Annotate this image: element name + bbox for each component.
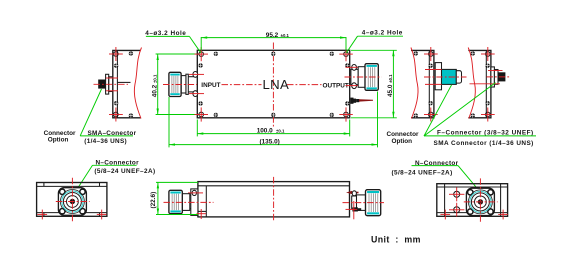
box outline	[198, 182, 350, 217]
label: SMA-Conector (1/4-36 UNS)	[80, 130, 136, 145]
leader from F-connector	[424, 85, 452, 136]
svg-text:100.0: 100.0	[257, 128, 273, 135]
label: 4-dia3.2 Hole (right)	[346, 30, 403, 53]
N-connector input (top view)	[163, 72, 204, 97]
corner hole TR	[339, 47, 353, 61]
(135.0) dimension	[169, 92, 378, 148]
end plate outline	[113, 50, 141, 117]
45.0 dimension	[351, 50, 397, 118]
screw heads on box	[198, 52, 349, 118]
break line	[468, 48, 475, 119]
corner hole TL	[195, 47, 209, 61]
leader to SMA label	[80, 89, 101, 136]
svg-text:(1/4–36 UNS): (1/4–36 UNS)	[84, 138, 127, 145]
box outline	[197, 50, 349, 118]
svg-text:±0.1: ±0.1	[281, 33, 290, 38]
label: N-Connector right	[392, 160, 459, 176]
corner hole bottom	[424, 108, 438, 122]
label: 4-dia3.2 Hole (left)	[145, 30, 201, 53]
svg-text:45.0 ±0.1: 45.0 ±0.1	[387, 74, 394, 97]
N connector circles	[60, 190, 84, 214]
svg-text:4–ø3.2 Hole: 4–ø3.2 Hole	[362, 30, 403, 37]
flange bolts	[60, 189, 86, 214]
svg-text:(22.6): (22.6)	[150, 192, 157, 209]
N flange square	[58, 188, 86, 216]
F-connector (end view)	[424, 63, 467, 90]
SMA pin output (top view)	[350, 98, 373, 104]
corner hole marks	[37, 210, 106, 220]
label: Connector Option (left)	[44, 130, 76, 144]
side holes	[449, 187, 464, 216]
SMA connector (side, left plate)	[94, 74, 129, 94]
svg-text:INPUT: INPUT	[201, 82, 220, 89]
break line	[134, 48, 141, 119]
end plate outline	[468, 50, 491, 117]
svg-text:Option: Option	[392, 138, 413, 145]
corner hole top	[424, 47, 438, 61]
svg-text:Unit : mm: Unit : mm	[371, 235, 421, 245]
SMA connector (end view)	[470, 67, 510, 87]
end plate outline	[411, 50, 434, 117]
label: N-Connector left	[93, 160, 156, 175]
svg-text:±0.1: ±0.1	[276, 129, 285, 134]
N flange square	[466, 188, 494, 215]
label: F-Connector (3/8-32 UNEF)	[424, 130, 536, 137]
svg-text:Option: Option	[48, 137, 69, 144]
leader from SMA connector	[424, 83, 496, 136]
screw heads	[471, 51, 490, 118]
horizontal centerline segments	[222, 84, 322, 86]
corner hole bottom	[109, 108, 123, 122]
vertical centerline	[272, 43, 274, 127]
svg-text:95.2: 95.2	[266, 32, 279, 39]
svg-text:SMA Connector (1/4–36 UNS): SMA Connector (1/4–36 UNS)	[434, 140, 534, 147]
svg-text:(5/8–24 UNEF–2A): (5/8–24 UNEF–2A)	[392, 169, 453, 176]
crosshair	[56, 178, 90, 223]
N connector (side view, left)	[164, 189, 214, 219]
N connector circles	[468, 190, 492, 214]
corner hole top	[481, 47, 495, 61]
screw heads	[114, 51, 133, 118]
F-connector output (top view)	[345, 64, 382, 91]
leader left	[77, 165, 93, 189]
svg-text:(5/8–24 UNEF–2A): (5/8–24 UNEF–2A)	[94, 168, 155, 175]
corner hole bottom	[481, 108, 495, 122]
corner hole BL	[195, 107, 209, 121]
(22.6) dimension	[150, 182, 198, 214]
svg-text:40.2 ±0.1: 40.2 ±0.1	[152, 74, 159, 97]
flange bolts	[468, 190, 494, 215]
crosshair	[464, 178, 498, 222]
outer body	[37, 183, 107, 217]
svg-text:Connector: Connector	[387, 131, 419, 138]
corner hole marks	[440, 210, 508, 220]
outer body	[437, 184, 508, 217]
right end connectors (side view)	[343, 190, 385, 220]
svg-text:OUTPUT: OUTPUT	[323, 83, 349, 90]
break line	[411, 48, 418, 119]
corner hole BR	[339, 107, 353, 121]
100.0 dimension	[197, 120, 349, 137]
corner hole top	[109, 47, 123, 61]
svg-text:LNA: LNA	[263, 77, 290, 92]
label: Connector Option (right)	[387, 131, 419, 145]
leader right	[458, 166, 478, 189]
95.2 dimension	[201, 32, 346, 51]
screw heads	[414, 51, 433, 118]
vertical centerline	[273, 177, 275, 222]
svg-text:(135.0): (135.0)	[260, 138, 280, 145]
